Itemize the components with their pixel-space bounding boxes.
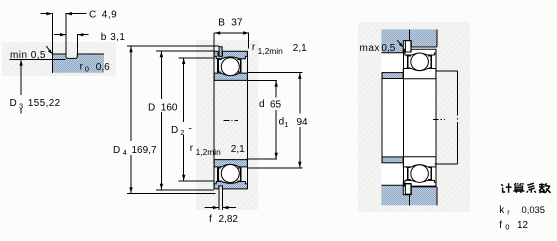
snap ring groove (white notch) in outer ring top [218, 51, 222, 56]
housing split face line (top) [409, 29, 411, 40]
ring face (left edge of block), extended up as C extension line [51, 13, 53, 73]
housing right edge line (bottom) [436, 187, 438, 205]
housing top block (sectioned) [381, 29, 436, 52]
svg-text:1: 1 [284, 120, 288, 129]
bearing right face line [246, 51, 248, 80]
block top surface line (right of groove) [77, 53, 104, 55]
svg-text:min 0,5: min 0,5 [10, 50, 46, 61]
bearing left face line (bottom half) [213, 160, 215, 189]
shaft/housing right-side break lines [435, 71, 458, 164]
svg-text:C: C [89, 9, 96, 20]
svg-text:37: 37 [231, 18, 243, 29]
axis dash-dot (right figure) [433, 118, 445, 120]
D extension line bottom [156, 189, 214, 191]
cage lines around bottom ball [218, 168, 241, 182]
svg-text:65: 65 [270, 99, 282, 110]
min 0,5 leader arrow [46, 46, 51, 53]
housing split face line (bottom) [409, 195, 411, 206]
shaft shoulder end face line [381, 73, 383, 163]
svg-text:0: 0 [85, 65, 89, 74]
D dimension line with arrows [160, 51, 162, 189]
B dimension line over top [214, 32, 249, 34]
ball (bottom) [411, 165, 429, 183]
d1 extension lines right side [247, 73, 302, 168]
cage marks (top ball) [408, 55, 432, 68]
svg-text:-: - [189, 124, 192, 135]
groove right wall, extended up as extension line [76, 34, 78, 56]
D3 dimension vertical line with up arrow [20, 60, 22, 95]
D2 dimension line with arrows [183, 58, 185, 180]
B right extension line [248, 33, 250, 49]
svg-text:1,2min: 1,2min [258, 46, 283, 56]
svg-text:160: 160 [161, 103, 178, 114]
bore face lines between halves [214, 80, 247, 159]
svg-text:D: D [148, 103, 155, 114]
svg-text:2: 2 [180, 128, 184, 137]
shaft shoulder (top, sectioned) [382, 73, 403, 79]
groove left wall, extended up as extension line [65, 13, 67, 56]
block top surface line (left of groove) [53, 53, 66, 55]
heading (CJK, drawn strokes) 计算系数 [501, 183, 550, 193]
outer ring top (plain section) [403, 49, 436, 55]
svg-text:0: 0 [505, 223, 509, 232]
bottom snap ring groove walls extended as f extension lines [219, 186, 223, 210]
outer ring groove detail: sectioned ring block [53, 54, 104, 73]
cage marks (bottom ball) [408, 167, 432, 180]
d1 dimension line with arrows [299, 73, 301, 168]
svg-text:b: b [101, 32, 107, 43]
housing right edge line (top) [436, 29, 438, 47]
svg-text:2,82: 2,82 [219, 214, 239, 225]
svg-text:d: d [259, 99, 265, 110]
cage lines around top ball [218, 59, 241, 73]
D3 level line (groove bottom level) [9, 58, 65, 60]
snap ring (top, white) [405, 41, 411, 52]
svg-text:D: D [10, 98, 17, 109]
svg-text:155,22: 155,22 [28, 98, 61, 109]
outer ring top section (steel) [214, 51, 247, 58]
max 0,5 leader arrow [397, 40, 401, 45]
faint textured panel behind right mounted figure [358, 22, 470, 212]
svg-text:B: B [218, 17, 225, 28]
svg-text:0,6: 0,6 [96, 62, 110, 73]
svg-text:169,7: 169,7 [132, 145, 157, 156]
bearing left face line [213, 33, 215, 80]
d extension lines (bore) right side [247, 80, 277, 158]
ball (top) [221, 58, 239, 76]
svg-text:1,2min: 1,2min [196, 147, 221, 157]
centre axis dash-dot [224, 119, 239, 121]
inner ring bottom section (steel) [214, 160, 247, 167]
svg-text:max: max [360, 43, 380, 54]
D4 dimension line with arrows [130, 46, 132, 193]
inner ring bottom (plain section) [403, 157, 436, 167]
faint textured panel behind main figure [196, 40, 258, 210]
faint textured panel behind left detail figure [2, 42, 116, 76]
D extension line top (to outer ring OD) [156, 50, 214, 52]
C dimension line with outside arrows [41, 13, 52, 15]
d dimension line with arrows [275, 81, 277, 159]
D2 extension line bottom [179, 180, 215, 182]
inner ring top (plain section) [403, 69, 436, 79]
svg-text:3,1: 3,1 [110, 32, 125, 43]
D3 line stub below text [20, 109, 22, 114]
snap ring (bottom, white) [405, 184, 411, 194]
f dimension line with outside arrows [205, 207, 219, 209]
shaft shoulder (bottom, sectioned) [382, 157, 403, 163]
svg-text:12: 12 [517, 220, 529, 231]
D2 extension line top [179, 57, 215, 59]
svg-text:94: 94 [297, 117, 309, 128]
outer ring bottom section (steel) [214, 182, 247, 189]
svg-text:0,5: 0,5 [381, 43, 395, 54]
D4 extension line top (to snap ring OD) [127, 45, 219, 47]
outer ring bottom (plain section) [403, 180, 436, 186]
svg-text:4: 4 [123, 148, 127, 157]
svg-text:2,1: 2,1 [231, 144, 245, 155]
bearing face lines through bore zone [403, 49, 436, 186]
svg-text:3: 3 [19, 101, 23, 110]
housing top lower boundary outline [381, 41, 436, 53]
svg-text:f: f [499, 220, 502, 231]
b dimension line with outside arrows [54, 34, 65, 36]
svg-text:D: D [113, 145, 120, 156]
D4 extension line bottom [127, 192, 216, 194]
housing bottom block (sectioned) [381, 185, 436, 205]
inner ring top section (steel) [214, 73, 247, 80]
groove bottom with fillets r0 [66, 55, 77, 59]
svg-text:0,035: 0,035 [522, 204, 545, 215]
housing bottom upper boundary outline [381, 185, 436, 195]
snap ring seated in groove (tab above OD) [219, 47, 222, 57]
svg-text:f: f [209, 214, 212, 225]
svg-text:D: D [171, 125, 178, 136]
ball (bottom) [221, 165, 239, 183]
svg-text:4,9: 4,9 [102, 9, 117, 20]
white interior ground of mounted assembly [381, 47, 436, 188]
bearing right face line (bottom half) [246, 160, 248, 189]
svg-text:2,1: 2,1 [293, 43, 307, 54]
ball (top) [411, 53, 429, 71]
